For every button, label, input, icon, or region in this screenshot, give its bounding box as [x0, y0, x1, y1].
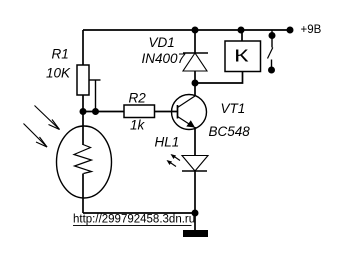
- node dot rail-VD1: [192, 27, 199, 34]
- ground: [183, 230, 208, 237]
- photoresistor zigzag: [74, 145, 92, 174]
- transistor collector diagonal: [178, 96, 196, 108]
- transistor emitter diagonal: [178, 117, 195, 128]
- svg-text:HL1: HL1: [155, 135, 180, 150]
- wire R1 top branch: [82, 30, 84, 65]
- wire R1 tap down: [95, 80, 97, 112]
- rail end dot: [287, 27, 294, 34]
- wire emitter down to LED: [194, 127, 196, 156]
- wire bottom horizontal: [83, 212, 195, 214]
- contact blade diagonal: [268, 48, 273, 59]
- diode VD1 bottom wire: [194, 71, 196, 83]
- wire R1 bottom to LDR: [82, 95, 84, 145]
- svg-text:VT1: VT1: [221, 101, 246, 116]
- LED arrow 2: [167, 160, 177, 167]
- transistor base bar: [177, 105, 179, 119]
- relay contact top stub: [271, 30, 273, 48]
- wire node to R2: [83, 111, 124, 113]
- LED cathode bar: [182, 170, 207, 172]
- diode VD1 top wire: [194, 30, 196, 53]
- svg-text:VD1: VD1: [149, 35, 175, 50]
- LED arrow 1: [171, 154, 181, 161]
- node dot ground: [192, 210, 199, 217]
- wire top +9V rail: [83, 29, 290, 31]
- url underline: [73, 225, 192, 227]
- svg-text:IN4007: IN4007: [142, 51, 186, 66]
- diode VD1 triangle: [183, 53, 207, 71]
- svg-text:R2: R2: [129, 91, 147, 106]
- node dot A: [80, 108, 87, 115]
- photoresistor ellipse: [57, 126, 112, 198]
- svg-text:BC548: BC548: [209, 124, 251, 139]
- node dot collector: [192, 80, 199, 87]
- contact dot bottom: [268, 67, 275, 74]
- contact bottom stub: [271, 60, 273, 71]
- light arrow 1: [35, 106, 60, 130]
- relay K box: [225, 41, 261, 72]
- light arrow 2: [24, 124, 48, 148]
- contact dot top: [269, 32, 276, 39]
- wire R1 tap arm: [89, 79, 101, 81]
- resistor R1: [77, 65, 89, 95]
- svg-text:+9В: +9В: [301, 24, 322, 36]
- node dot rail-relay: [238, 27, 245, 34]
- wire LDR bottom: [82, 174, 84, 214]
- wire R2 to base: [155, 111, 179, 113]
- wire collector up: [194, 83, 196, 96]
- wire relay top: [241, 30, 243, 41]
- svg-text:1k: 1k: [130, 118, 146, 133]
- diode VD1 cathode bar: [183, 52, 208, 54]
- svg-text:К: К: [234, 46, 250, 66]
- svg-text:R1: R1: [52, 47, 69, 62]
- node dot B (tap): [92, 108, 99, 115]
- svg-text:10K: 10K: [46, 66, 71, 81]
- wire collector node to relay: [195, 72, 243, 84]
- transistor VT1 circle: [172, 95, 207, 130]
- wire LED to ground node: [194, 171, 196, 230]
- transistor emitter arrow head: [186, 120, 195, 127]
- svg-text:http://299792458.3dn.ru: http://299792458.3dn.ru: [73, 214, 195, 226]
- LED HL1 triangle: [182, 156, 208, 172]
- resistor R2: [124, 105, 155, 118]
